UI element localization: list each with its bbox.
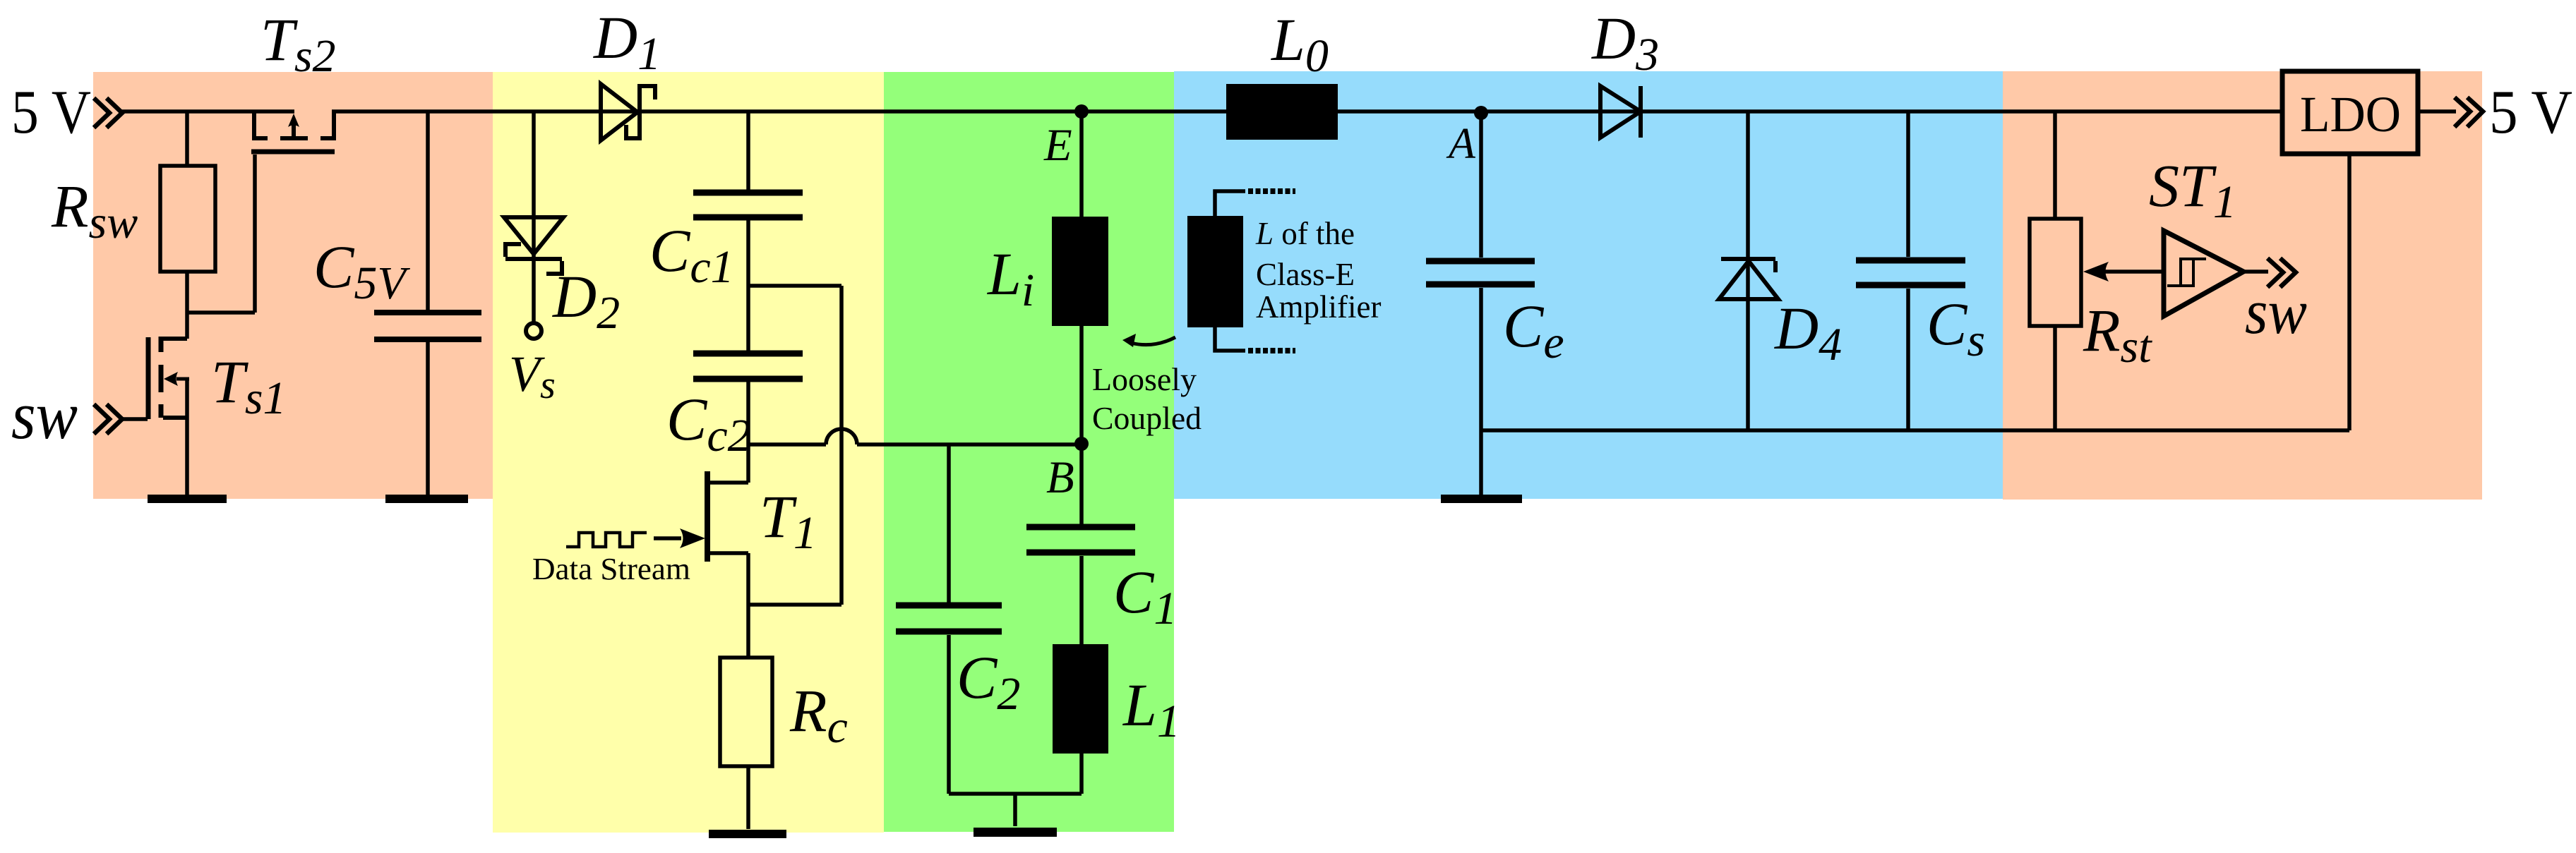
svg-text:D3: D3 xyxy=(1591,4,1659,80)
svg-text:L of the: L of the xyxy=(1255,216,1355,251)
svg-text:Data Stream: Data Stream xyxy=(532,552,690,586)
svg-text:Amplifier: Amplifier xyxy=(1256,289,1381,325)
svg-text:5 V: 5 V xyxy=(11,78,91,147)
svg-text:Loosely: Loosely xyxy=(1092,361,1197,397)
svg-text:Class-E: Class-E xyxy=(1256,257,1355,292)
svg-text:LDO: LDO xyxy=(2300,86,2401,143)
svg-text:E: E xyxy=(1043,120,1072,171)
svg-text:sw: sw xyxy=(11,377,78,453)
svg-text:Coupled: Coupled xyxy=(1092,400,1202,436)
svg-text:Ts2: Ts2 xyxy=(260,6,336,82)
svg-text:L0: L0 xyxy=(1270,6,1329,82)
svg-text:D1: D1 xyxy=(593,4,661,80)
svg-text:sw: sw xyxy=(2245,277,2307,347)
svg-text:A: A xyxy=(1446,120,1476,168)
svg-text:5 V: 5 V xyxy=(2489,78,2572,147)
svg-text:B: B xyxy=(1046,452,1074,503)
